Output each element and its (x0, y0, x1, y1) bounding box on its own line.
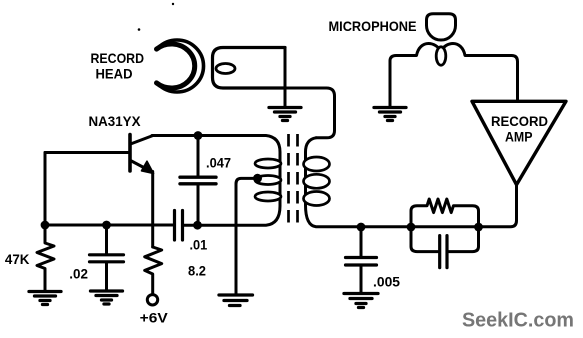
ground (.02) (91, 291, 123, 304)
label MICROPHONE (329, 18, 417, 34)
transformer T1 left winding loops (255, 159, 281, 201)
transistor Q1 base bar (128, 135, 132, 172)
label RECORD AMP (491, 114, 548, 145)
transistor Q1 collector diagonal (131, 136, 154, 145)
label .005 (373, 275, 400, 290)
record head crescent (tape) (157, 40, 204, 92)
parallel RC network top branch with resistor (411, 199, 479, 227)
wire: tap to ground (236, 178, 258, 294)
ground (47K) (29, 292, 61, 305)
node: bus dot at 47K (41, 221, 50, 230)
label 8.2 (188, 264, 206, 279)
svg-text:RECORD: RECORD (91, 50, 145, 66)
watermark SeekIC.com (462, 310, 574, 332)
transistor Q1 emitter arrow (142, 161, 154, 173)
wire: base drop to bus (44, 153, 47, 226)
wire: emitter vertical (151, 172, 154, 248)
label 47K (5, 252, 30, 267)
svg-text:MICROPHONE: MICROPHONE (329, 18, 417, 34)
svg-text:RECORD: RECORD (491, 114, 548, 129)
svg-text:47K: 47K (5, 252, 30, 267)
capacitor .02 leads (105, 225, 108, 254)
node: bus junction dot right of .01 (193, 221, 202, 230)
transformer T1 right winding spine + wire to bus/amp (306, 138, 517, 227)
ground (microphone) (374, 108, 406, 121)
parallel RC network bottom branch leads (411, 227, 438, 252)
capacitor .02 plates (90, 255, 124, 262)
capacitor (parallel RC) plates (440, 236, 447, 268)
resistor 8.2 (145, 247, 162, 294)
microphone wire with humps and ground drop (390, 44, 518, 108)
scan speck 1 (138, 28, 141, 31)
capacitor .005 plates (346, 258, 377, 266)
ground (tap) (219, 295, 253, 306)
record head gap ellipse (216, 64, 235, 74)
node: RC right dot (474, 223, 483, 232)
node: transformer tap dot (253, 174, 262, 183)
transistor Q1 emitter diagonal (131, 161, 148, 170)
label +6V (140, 311, 168, 326)
node: bus dot at .005 (357, 223, 366, 232)
svg-text:NA31YX: NA31YX (89, 113, 142, 129)
wire: record head to ground (284, 48, 287, 108)
svg-text:8.2: 8.2 (188, 264, 206, 279)
wire: base (45, 151, 129, 154)
svg-text:.01: .01 (190, 238, 208, 253)
capacitor .047 plates (180, 177, 216, 184)
capacitor .01 (series in bus) (175, 211, 183, 241)
microphone teardrop (436, 47, 446, 65)
capacitor .047 leads (197, 136, 200, 177)
wire + transformer T1 left winding top/spine/bottom (183, 136, 280, 226)
label .02 (69, 267, 88, 282)
label NA31YX (89, 113, 142, 129)
wire: record head to transformer right winding top (285, 88, 335, 138)
svg-text:.047: .047 (206, 156, 231, 171)
resistor 47K (37, 225, 54, 292)
svg-text:.005: .005 (373, 275, 400, 290)
label .01 (190, 238, 208, 253)
wire: bottom bus left segment (45, 224, 173, 227)
transformer T1 core dashed lines (289, 134, 298, 229)
microphone head (427, 14, 456, 40)
scan speck 2 (172, 3, 174, 5)
label RECORD HEAD (91, 50, 145, 82)
node: collector junction dot (194, 131, 203, 140)
capacitor .005 leads (360, 227, 363, 256)
ground (record head) (269, 108, 301, 121)
node: bus dot at .02 (102, 221, 111, 230)
terminal +6V circle (147, 295, 157, 305)
svg-text:AMP: AMP (505, 130, 533, 145)
label .047 (206, 156, 231, 171)
op-amp RECORD AMP triangle (472, 101, 566, 184)
svg-text:HEAD: HEAD (96, 66, 133, 82)
ground (.005) (344, 294, 378, 308)
svg-text:.02: .02 (69, 267, 88, 282)
svg-text:+6V: +6V (140, 311, 168, 326)
wire: collector to transformer (152, 134, 198, 137)
record head body (213, 48, 286, 89)
node: RC left dot (407, 223, 416, 232)
transformer T1 right winding loops (304, 157, 330, 206)
svg-text:SeekIC.com: SeekIC.com (462, 310, 574, 332)
